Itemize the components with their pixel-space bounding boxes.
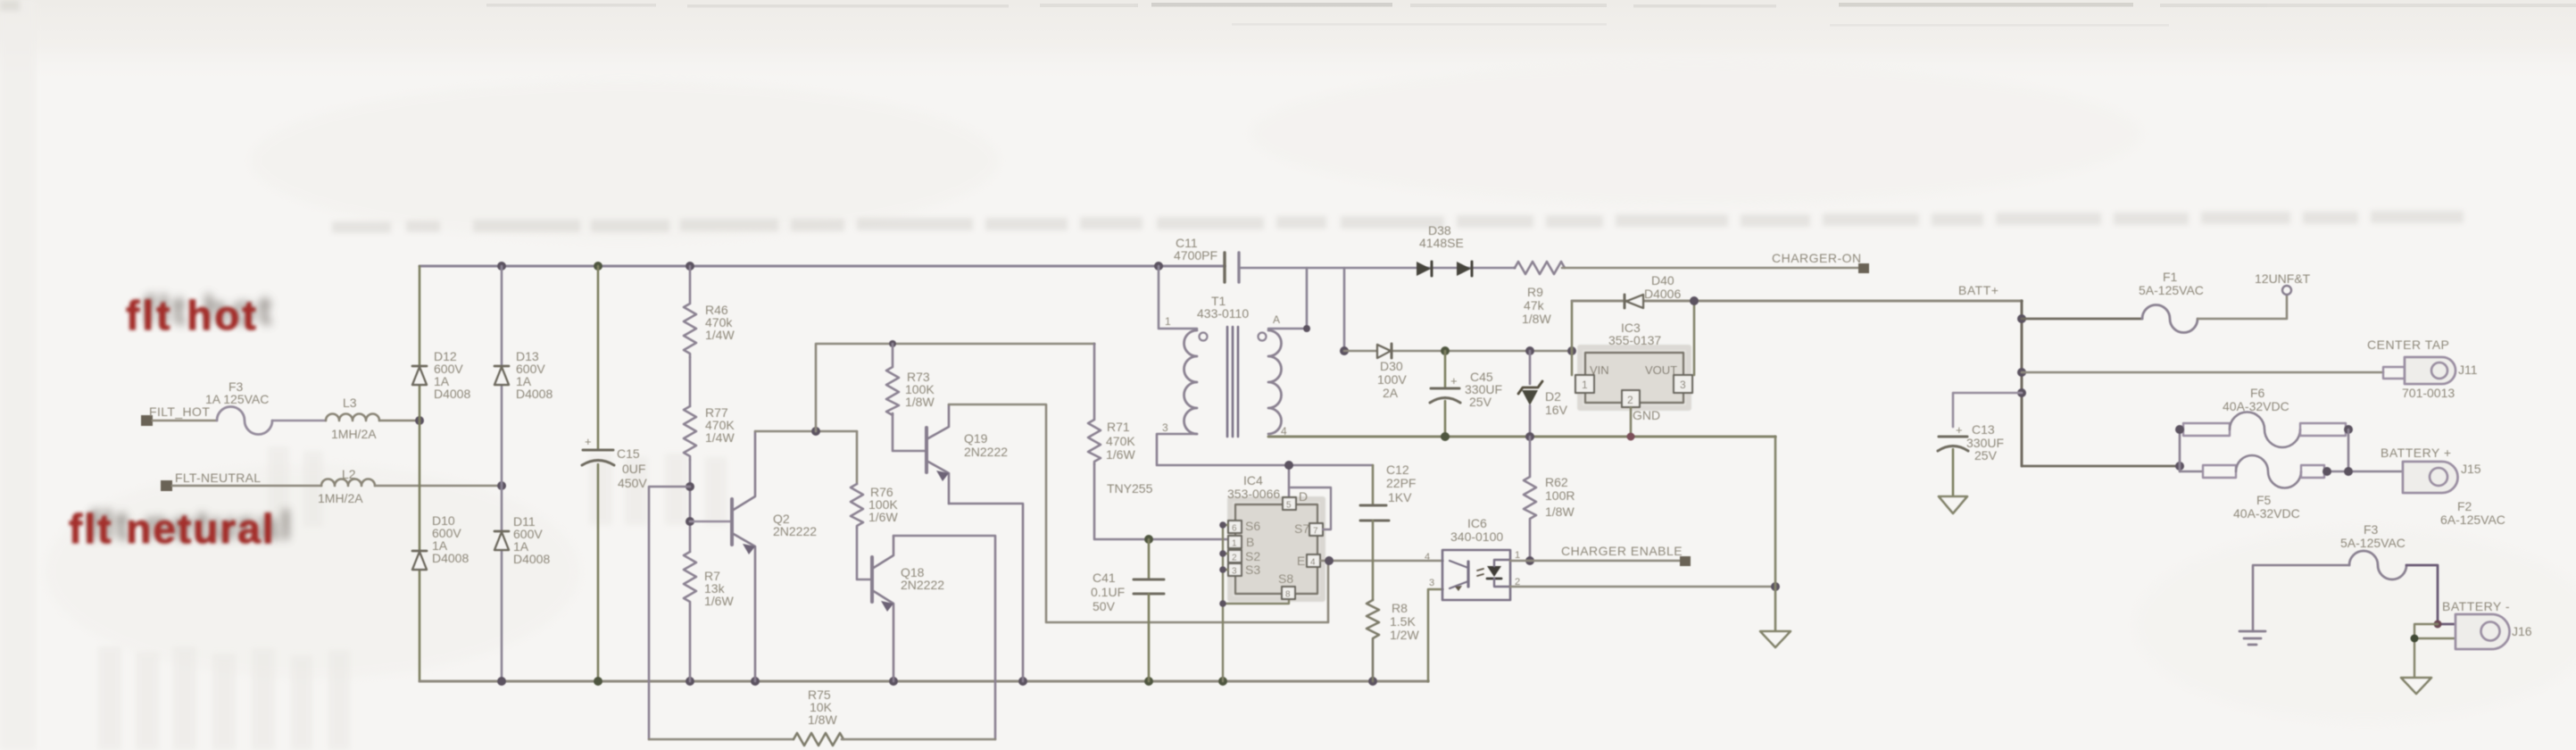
fuse F3 <box>205 379 272 435</box>
svg-text:4: 4 <box>1425 552 1430 562</box>
svg-text:CENTER TAP: CENTER TAP <box>2367 337 2449 352</box>
node bus S3 <box>1219 566 1226 573</box>
node C41 junction <box>1144 535 1153 544</box>
wire D13-D11 column <box>501 266 503 681</box>
wire D30 output line <box>1344 350 1572 353</box>
SCHEM4 <box>1344 223 2022 647</box>
wire hot input <box>153 420 217 422</box>
annotation flt netural <box>69 502 294 552</box>
connector J16 <box>2442 599 2532 649</box>
svg-text:100R: 100R <box>1545 488 1575 503</box>
node F1 junction <box>2017 314 2026 323</box>
resistor R9 <box>1515 262 1565 326</box>
svg-text:1/8W: 1/8W <box>1545 504 1575 519</box>
node R62 opto junction <box>1525 556 1534 565</box>
node T1 pin1 junction <box>1154 262 1163 271</box>
node E junction <box>1325 556 1334 565</box>
SCHEM2 <box>649 266 1328 746</box>
svg-text:F2: F2 <box>2457 499 2472 513</box>
svg-text:J11: J11 <box>2458 362 2478 377</box>
svg-text:D4008: D4008 <box>516 387 553 401</box>
svg-text:2N2222: 2N2222 <box>773 524 817 538</box>
node bottom rail junction IC4 bus <box>1218 677 1227 686</box>
svg-text:D4008: D4008 <box>513 552 550 566</box>
svg-text:0UF: 0UF <box>622 462 645 476</box>
svg-text:1/8W: 1/8W <box>808 712 837 727</box>
svg-text:R8: R8 <box>1392 601 1408 615</box>
svg-text:FLT-NEUTRAL: FLT-NEUTRAL <box>175 471 261 485</box>
node bottom rail junction D11 <box>497 677 506 686</box>
svg-text:8: 8 <box>1285 590 1291 600</box>
wire bottom rail <box>420 679 1428 682</box>
svg-text:1/6W: 1/6W <box>1106 447 1135 462</box>
svg-text:450V: 450V <box>618 476 647 490</box>
ground triangle C13 <box>1939 496 1967 513</box>
svg-text:5: 5 <box>1286 501 1292 511</box>
IC3 pin 3 <box>1674 375 1692 393</box>
diode D11 <box>494 514 550 566</box>
node bottom rail junction R8 <box>1368 677 1377 686</box>
inductor L3 <box>326 396 379 441</box>
resistor R8 <box>1367 600 1419 681</box>
svg-text:1: 1 <box>1582 379 1588 391</box>
svg-text:S8: S8 <box>1278 571 1293 586</box>
svg-text:R62: R62 <box>1545 475 1568 489</box>
node ground run junction <box>1771 582 1780 591</box>
wire IC3 VOUT riser <box>1693 301 1696 375</box>
svg-text:IC6: IC6 <box>1467 516 1487 530</box>
svg-text:1/6W: 1/6W <box>868 510 898 524</box>
svg-text:340-0100: 340-0100 <box>1450 529 1503 544</box>
svg-text:2A: 2A <box>1383 386 1399 400</box>
fuse F6 <box>2180 386 2348 447</box>
svg-text:F5: F5 <box>2256 493 2272 507</box>
svg-text:3: 3 <box>1162 421 1168 434</box>
svg-text:C13: C13 <box>1972 422 1995 437</box>
svg-text:C15: C15 <box>617 446 640 461</box>
svg-text:1/8W: 1/8W <box>905 395 935 409</box>
wire fuse block left bar <box>2179 429 2181 471</box>
svg-text:D4008: D4008 <box>432 551 469 565</box>
IC3 pin 2 <box>1622 390 1660 422</box>
node F6 right node <box>2344 425 2353 434</box>
wire R73 to Q19 base <box>893 413 925 451</box>
wire C13 branch <box>1953 393 2022 427</box>
IC4 pin B <box>1228 535 1254 549</box>
node IC4 drain junction <box>1284 461 1293 470</box>
svg-text:6A-125VAC: 6A-125VAC <box>2440 512 2505 527</box>
fuse F3B <box>2340 522 2406 579</box>
wire ground drop <box>1774 437 1777 631</box>
node center tap junction <box>2017 368 2026 377</box>
svg-text:25V: 25V <box>1469 395 1492 409</box>
svg-text:433-0110: 433-0110 <box>1197 306 1249 321</box>
wire D12-D10 column <box>419 266 421 681</box>
node VOUT junction <box>1690 296 1699 305</box>
svg-text:TNY255: TNY255 <box>1107 481 1153 496</box>
IC3 pin 1 <box>1575 375 1594 393</box>
SCHEM1 <box>141 262 1428 686</box>
node C13 junction <box>2017 388 2026 397</box>
svg-text:VOUT: VOUT <box>1645 363 1677 377</box>
svg-text:CHARGER ENABLE: CHARGER ENABLE <box>1561 544 1683 558</box>
resistor R76 <box>851 484 898 528</box>
svg-text:1/8W: 1/8W <box>1522 312 1551 326</box>
node top rail junction D13 <box>497 262 506 271</box>
node C45 top junction <box>1441 346 1450 355</box>
wire rail riser to opto pin3 <box>1428 589 1442 681</box>
node 12UNF&T terminal <box>2255 271 2311 295</box>
svg-text:E: E <box>1297 554 1305 568</box>
svg-text:16V: 16V <box>1545 403 1568 417</box>
wire R75 line right <box>842 738 995 741</box>
annotation flt hot <box>126 287 275 338</box>
svg-text:2N2222: 2N2222 <box>964 445 1008 459</box>
svg-text:25V: 25V <box>1974 448 1998 462</box>
node collector rail junction <box>811 427 820 436</box>
svg-text:3: 3 <box>1680 379 1686 391</box>
node bottom rail junction Q2 emitter <box>751 677 760 686</box>
wire R46 to R77 <box>689 357 692 406</box>
diode D10 <box>412 513 469 570</box>
svg-text:L3: L3 <box>343 396 357 410</box>
wire IC4 source bus <box>1223 525 1289 681</box>
svg-text:J16: J16 <box>2512 624 2532 638</box>
svg-text:1MH/2A: 1MH/2A <box>331 427 377 441</box>
wire opto pin1 to R62 node <box>1510 560 1530 562</box>
diode D30 <box>1377 344 1407 400</box>
node FLT-NEUTRAL input terminal <box>161 471 261 491</box>
svg-text:40A-32VDC: 40A-32VDC <box>2233 506 2300 521</box>
svg-text:S3: S3 <box>1245 562 1260 577</box>
svg-text:GND: GND <box>1633 408 1660 422</box>
IC4 pin S7 <box>1291 487 1331 537</box>
resistor R46 <box>684 266 735 357</box>
wire L2 to bridge <box>375 485 502 487</box>
svg-text:1: 1 <box>1515 550 1520 561</box>
svg-text:470K: 470K <box>1106 434 1135 448</box>
wire T1 pin1 drop <box>1159 266 1197 329</box>
svg-text:Q19: Q19 <box>964 431 988 446</box>
node J16 top pin junction <box>2434 621 2442 629</box>
node pinA winding junction <box>1303 325 1310 332</box>
node CHARGER-ON terminal <box>1772 251 1869 273</box>
node bus S8 <box>1219 600 1226 607</box>
diode D38 <box>1417 223 1472 276</box>
svg-text:D4006: D4006 <box>1644 287 1681 301</box>
node bottom rail junction Q19 emitter <box>1018 677 1027 686</box>
wire F1 to 12UNREG stub <box>2198 296 2287 319</box>
resistor R62 <box>1524 437 1575 561</box>
node hot-bridge junction <box>415 416 424 425</box>
svg-text:701-0013: 701-0013 <box>2402 386 2455 400</box>
optocoupler IC6 <box>1425 516 1520 600</box>
svg-text:4148SE: 4148SE <box>1419 236 1464 250</box>
svg-text:J15: J15 <box>2461 462 2481 476</box>
svg-text:R9: R9 <box>1527 285 1543 299</box>
svg-text:2: 2 <box>1627 394 1633 406</box>
svg-text:D30: D30 <box>1380 359 1403 373</box>
svg-text:1/4W: 1/4W <box>705 328 735 342</box>
svg-text:R71: R71 <box>1107 420 1130 434</box>
node J16 lower pin junction <box>2411 635 2419 643</box>
transistor Q18 <box>872 536 944 681</box>
wire R75 line left <box>649 738 794 741</box>
earth ground battery minus <box>2239 631 2265 645</box>
svg-text:flt hot: flt hot <box>126 292 259 338</box>
resistor R75 <box>794 687 843 746</box>
wire earth to fuse <box>2253 565 2349 631</box>
capacitor C45 <box>1430 351 1502 437</box>
svg-text:C41: C41 <box>1093 571 1116 585</box>
transistor Q2 <box>732 431 817 681</box>
ground triangle charger <box>1760 631 1791 647</box>
node fuse block right junction <box>2344 467 2353 476</box>
svg-text:40A-32VDC: 40A-32VDC <box>2223 399 2289 413</box>
capacitor C11 <box>1174 236 1239 282</box>
node CHARGER ENABLE terminal <box>1561 544 1691 566</box>
ground triangle J16 <box>2401 678 2431 694</box>
IC4 pin D <box>1283 465 1308 511</box>
wire R76 to Q18 base <box>857 528 870 579</box>
svg-text:355-0137: 355-0137 <box>1608 333 1661 347</box>
wire fuse block right bar <box>2347 429 2350 471</box>
node fuse block left junction <box>2175 462 2184 471</box>
capacitor C12 <box>1360 462 1416 600</box>
svg-text:1KV: 1KV <box>1388 490 1412 504</box>
wire secondary ground rail <box>1268 436 1775 438</box>
wire center tap run <box>2022 371 2383 374</box>
svg-text:1.5K: 1.5K <box>1390 614 1416 629</box>
node bottom rail junction C15 <box>594 677 602 686</box>
wire IC3 GND stem <box>1630 407 1633 437</box>
svg-text:CHARGER-ON: CHARGER-ON <box>1772 251 1862 265</box>
wire BATT+ trunk <box>2021 301 2023 466</box>
capacitor C41 <box>1091 539 1164 681</box>
svg-text:353-0066: 353-0066 <box>1227 487 1280 501</box>
svg-text:S7: S7 <box>1294 521 1309 536</box>
wire C15 column <box>597 266 600 681</box>
svg-text:50V: 50V <box>1093 599 1116 613</box>
svg-text:6: 6 <box>1232 524 1237 534</box>
zener D2 <box>1518 351 1568 437</box>
node center tap pin <box>2383 367 2405 379</box>
wire Q2 collector rail <box>755 430 857 433</box>
node bus S6 <box>1219 521 1226 529</box>
IC4 pin S6 <box>1228 519 1260 534</box>
svg-text:D40: D40 <box>1651 273 1674 287</box>
svg-text:+: + <box>1450 374 1458 387</box>
svg-text:A: A <box>1273 313 1280 326</box>
svg-text:22PF: 22PF <box>1386 476 1416 490</box>
svg-text:BATT+: BATT+ <box>1958 283 1998 297</box>
node Q2 base junction <box>686 517 694 526</box>
wire feedback branch left <box>649 487 690 739</box>
wire base branch to Q2 <box>690 521 730 523</box>
svg-text:+: + <box>1956 423 1963 437</box>
wire L3 to bridge <box>379 420 420 422</box>
svg-text:+: + <box>585 435 592 448</box>
svg-text:100V: 100V <box>1377 372 1407 387</box>
node R73 top junction <box>889 340 896 347</box>
SCHEM3 <box>1088 236 1775 681</box>
wire D40 line <box>1572 300 2022 303</box>
wire R77 to R7 column <box>689 460 692 552</box>
capacitor C13 <box>1938 422 2004 496</box>
wire D30 drop <box>1343 268 1346 351</box>
svg-text:BATTERY +: BATTERY + <box>2381 446 2452 460</box>
IC4 pin S3 <box>1228 562 1260 577</box>
wire Q19 collector loop <box>949 404 1328 622</box>
node FILT_HOT input terminal <box>141 404 210 426</box>
svg-text:D4008: D4008 <box>434 387 470 401</box>
svg-text:S2: S2 <box>1245 549 1260 563</box>
node bottom rail junction C41 <box>1144 677 1153 686</box>
svg-text:1: 1 <box>1232 539 1237 549</box>
node bottom rail junction R7 <box>686 677 694 686</box>
svg-text:L2: L2 <box>342 467 356 481</box>
wire T1 pin3 to IC4 drain <box>1157 434 1373 465</box>
svg-text:FILT_HOT: FILT_HOT <box>149 404 210 419</box>
wire R9 to CHARGER-ON <box>1562 267 1859 270</box>
node bus S2 <box>1219 550 1226 557</box>
node neutral-bridge junction <box>497 481 506 490</box>
capacitor C15 <box>582 435 647 490</box>
node F5 output node <box>2323 467 2331 476</box>
wire opto pin2 ground run <box>1510 586 1775 588</box>
connector J15 <box>2381 446 2505 527</box>
IC U3 box <box>1580 321 1689 408</box>
wire Q18 collector loop <box>893 536 995 739</box>
svg-text:1/4W: 1/4W <box>705 430 735 445</box>
wire riser to R73 rail <box>816 344 1094 431</box>
svg-text:3: 3 <box>1232 567 1237 577</box>
wire IC3 VIN riser <box>1571 301 1574 375</box>
svg-text:F1: F1 <box>2163 270 2178 284</box>
node IC3 VIN junction <box>1567 346 1576 355</box>
fuse F5 <box>2180 455 2405 521</box>
node GND rail junction <box>1627 433 1635 441</box>
svg-text:4700PF: 4700PF <box>1174 248 1217 262</box>
fuse F1 <box>2139 270 2204 333</box>
resistor R77 <box>684 405 735 460</box>
resistor R7 <box>684 552 734 681</box>
wire E to opto <box>1320 560 1442 562</box>
svg-text:D: D <box>1299 489 1308 504</box>
wire fuse to J16 <box>2406 565 2456 624</box>
transistor Q19 <box>927 404 1008 504</box>
node D2 bottom junction <box>1525 432 1534 441</box>
inductor L2 <box>318 467 375 505</box>
IC4 pin S2 <box>1228 549 1260 563</box>
svg-text:5A-125VAC: 5A-125VAC <box>2139 283 2204 297</box>
node C45 bottom junction <box>1441 432 1450 441</box>
wire neutral input <box>172 485 321 487</box>
svg-text:flt netural: flt netural <box>69 505 276 552</box>
svg-text:12UNF&T: 12UNF&T <box>2255 271 2311 286</box>
wire Q19 emitter to rail <box>949 504 1023 681</box>
node D2 top junction <box>1525 346 1534 355</box>
node R77 bottom junction <box>686 482 694 491</box>
node bottom rail junction Q18 emitter <box>889 677 898 686</box>
wire R76 riser <box>856 431 859 484</box>
svg-text:1/2W: 1/2W <box>1390 628 1419 642</box>
wire hot to L3 <box>272 420 326 422</box>
node top rail junction C15 <box>594 262 602 271</box>
wire secondary top rail <box>1239 267 1515 270</box>
connector J11 <box>2367 337 2478 400</box>
diode D13 <box>494 349 553 401</box>
svg-text:F3: F3 <box>2364 522 2379 537</box>
svg-text:S6: S6 <box>1245 519 1260 533</box>
IC U4 box <box>1227 473 1323 599</box>
wire R71 to IC4 pin B <box>1094 464 1228 539</box>
svg-text:1/6W: 1/6W <box>704 594 734 608</box>
svg-text:1: 1 <box>1165 315 1171 328</box>
diode D12 <box>412 349 470 401</box>
svg-text:1A 125VAC: 1A 125VAC <box>205 392 269 406</box>
svg-text:F6: F6 <box>2250 386 2265 400</box>
svg-text:C12: C12 <box>1386 462 1409 477</box>
node top rail junction R46 <box>686 262 694 271</box>
diode D40 <box>1625 273 1681 308</box>
svg-text:0.1UF: 0.1UF <box>1091 585 1125 599</box>
IC4 pin S8 <box>1278 571 1295 600</box>
svg-text:5A-125VAC: 5A-125VAC <box>2340 536 2406 550</box>
svg-text:IC4: IC4 <box>1243 473 1263 487</box>
wire battery feed <box>2022 465 2180 468</box>
svg-text:4: 4 <box>1310 558 1316 568</box>
svg-text:7: 7 <box>1313 527 1318 537</box>
svg-text:D2: D2 <box>1545 389 1561 404</box>
svg-text:3: 3 <box>1429 578 1434 588</box>
transformer T1 <box>1162 294 1287 437</box>
resistor R73 <box>886 344 935 415</box>
svg-text:47k: 47k <box>1524 298 1545 312</box>
wire T1 pinA riser <box>1268 268 1307 329</box>
svg-text:1MH/2A: 1MH/2A <box>318 491 363 505</box>
node D30 corner <box>1340 346 1349 355</box>
SCHEM5 <box>1938 270 2532 694</box>
svg-text:BATTERY -: BATTERY - <box>2442 599 2510 613</box>
wire F1 feed <box>2022 318 2142 321</box>
svg-text:B: B <box>1246 535 1254 549</box>
wire J16 lower pin jog <box>2414 624 2456 678</box>
IC4 pin E <box>1297 554 1320 568</box>
resistor R71 <box>1088 344 1135 464</box>
wire CHARGER ENABLE stub <box>1530 560 1681 562</box>
wire top rail <box>420 264 1225 267</box>
svg-text:2N2222: 2N2222 <box>901 578 944 592</box>
node F6 left node <box>2175 425 2184 434</box>
svg-text:2: 2 <box>1232 554 1237 563</box>
